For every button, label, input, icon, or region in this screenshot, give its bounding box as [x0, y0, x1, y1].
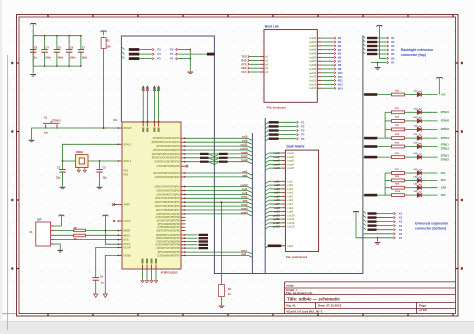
- power VCC: [31, 24, 36, 28]
- power VCC: [437, 78, 443, 82]
- wire: [33, 28, 81, 73]
- pin UVCC arrow: [113, 220, 116, 223]
- svg-text:PE2: PE2: [124, 169, 129, 172]
- svg-text:Sig. #1: Sig. #1: [286, 304, 296, 308]
- comment backlight: [401, 48, 433, 57]
- pin net swcl: [158, 249, 253, 255]
- svg-text:(RXD1/AIN5/INT2)PD2: (RXD1/AIN5/INT2)PD2: [156, 237, 180, 240]
- svg-text:BTN22: BTN22: [441, 157, 450, 161]
- capacitor C2: [56, 161, 66, 181]
- node net-right: [170, 52, 215, 56]
- svg-text:BTN04: BTN04: [441, 136, 450, 140]
- svg-text:ATMEGA32U2: ATMEGA32U2: [161, 270, 179, 274]
- wire buzzer: [221, 201, 223, 283]
- svg-text:(OC0A/PCINT7/ADC)PC7: (OC0A/PCINT7/ADC)PC7: [153, 172, 181, 175]
- svg-text:col1: col1: [274, 179, 280, 183]
- node SCK: [121, 56, 161, 61]
- svg-text:(PCINT8/CLKO/ICP1)PC0: (PCINT8/CLKO/ICP1)PC0: [153, 138, 181, 140]
- pin UVCC: [118, 220, 131, 223]
- connector SV2 Dash Matrix: [285, 145, 318, 260]
- svg-text:(CTS/HWB/AIN7)PD7: (CTS/HWB/AIN7)PD7: [157, 254, 180, 257]
- svg-text:row2: row2: [273, 155, 280, 159]
- pin GND: [142, 259, 144, 281]
- svg-text:(XCK/AIN4/PCINT)PD4: (XCK/AIN4/PCINT)PD4: [156, 216, 181, 219]
- ground: [150, 281, 153, 283]
- node MOSI: [121, 47, 161, 52]
- svg-text:(ADC4/TCK/PCINT)PA4: (ADC4/TCK/PCINT)PA4: [155, 197, 181, 200]
- diode row D1 +5V: [362, 82, 445, 97]
- svg-text:PE6: PE6: [124, 173, 129, 176]
- power VCC arrow: [157, 86, 160, 123]
- pin led07: [309, 59, 341, 63]
- pin unused: [157, 221, 186, 223]
- diode row PA1: [385, 169, 446, 175]
- node label pair: [200, 153, 228, 155]
- svg-text:col7: col7: [274, 202, 280, 206]
- pin net row4: [156, 210, 252, 216]
- svg-text:IC1: IC1: [114, 118, 119, 122]
- svg-text:P3: P3: [170, 48, 174, 52]
- svg-text:col3: col3: [274, 187, 280, 191]
- node bk2: [362, 40, 395, 45]
- svg-text:connector (top): connector (top): [401, 53, 426, 57]
- pin col3: [265, 187, 293, 191]
- ground: [141, 281, 144, 283]
- pin UCAP: [118, 247, 131, 250]
- svg-text:(ADC0/PCINT0/INT)PA0: (ADC0/PCINT0/INT)PA0: [155, 176, 181, 179]
- comment universal: [415, 222, 448, 231]
- pin GND: [146, 259, 148, 281]
- pin led03: [309, 44, 341, 48]
- svg-text:led11: led11: [310, 75, 317, 79]
- svg-text:row5: row5: [273, 166, 280, 170]
- svg-text:swd: swd: [241, 252, 246, 256]
- power VCC: [55, 215, 64, 226]
- svg-text:M13: M13: [338, 83, 343, 86]
- svg-text:of 1/5: of 1/5: [419, 308, 427, 312]
- pin TXD: [242, 55, 270, 58]
- pin net sw2: [155, 173, 253, 179]
- pin net row6: [152, 150, 253, 156]
- wire UGND: [103, 255, 117, 297]
- pin row3: [265, 159, 294, 163]
- pin led04: [309, 48, 341, 52]
- node bk1: [362, 36, 395, 41]
- svg-text:sw2: sw2: [242, 173, 248, 177]
- pin GND: [151, 259, 153, 281]
- svg-text:22p: 22p: [103, 177, 108, 180]
- capacitor C6: [66, 35, 76, 67]
- bus B1: [121, 36, 363, 274]
- node bl4: [265, 133, 305, 137]
- ground: [60, 181, 66, 189]
- pin col5: [265, 194, 293, 198]
- pin led12: [309, 79, 343, 83]
- wire MOSI: [55, 230, 118, 232]
- pin led01: [309, 36, 341, 40]
- power VCC backlight: [377, 26, 395, 61]
- svg-text:RXD: RXD: [241, 60, 246, 63]
- svg-text:(PCINT11/AIN2/TMS)PC3: (PCINT11/AIN2/TMS)PC3: [153, 149, 180, 152]
- svg-text:col11: col11: [273, 217, 280, 221]
- pin net row8: [154, 158, 252, 164]
- wire XTAL1: [88, 160, 118, 162]
- svg-text:UCAP: UCAP: [124, 247, 131, 250]
- pin PE6: [124, 173, 129, 176]
- svg-text:(ADC6/TDO/PCINT)PA6: (ADC6/TDO/PCINT)PA6: [155, 205, 181, 208]
- capacitor C9: [93, 275, 105, 284]
- pin net row1: [155, 195, 253, 201]
- svg-text:col10: col10: [273, 213, 280, 217]
- diode row PA5: [385, 191, 446, 197]
- ground: [375, 237, 381, 244]
- svg-text:col4: col4: [274, 191, 280, 195]
- pin led08: [309, 63, 341, 67]
- svg-text:led01: led01: [309, 36, 316, 40]
- pin net LED: [157, 247, 208, 250]
- svg-text:PA5: PA5: [441, 193, 446, 197]
- svg-text:led06: led06: [309, 55, 316, 59]
- pin led06: [309, 55, 341, 59]
- diode row CAB: [385, 184, 446, 190]
- svg-text:Page: Page: [419, 303, 427, 307]
- pin XTAL1: [118, 160, 132, 163]
- pin col6: [265, 198, 293, 202]
- pin led05: [309, 52, 341, 56]
- wire reset: [32, 127, 118, 129]
- pin col4: [265, 191, 293, 195]
- pin RESET: [118, 127, 133, 130]
- svg-text:GND: GND: [241, 67, 247, 70]
- svg-text:BTN12: BTN12: [441, 147, 450, 151]
- svg-text:VCad 6.5.0 (cad (M,L,N)–1: VCad 6.5.0 (cad (M,L,N)–1: [286, 309, 323, 313]
- svg-text:(ADC2/AIN0/TDO)PA2: (ADC2/AIN0/TDO)PA2: [156, 189, 180, 192]
- svg-text:(RTS/AIN6/INT6)PD6: (RTS/AIN6/INT6)PD6: [158, 223, 181, 226]
- svg-text:(TXD1/INT3/AIN1)PD3: (TXD1/INT3/AIN1)PD3: [156, 165, 180, 168]
- svg-text:1u: 1u: [101, 281, 104, 284]
- svg-text:row8: row8: [241, 158, 248, 162]
- svg-text:col2: col2: [274, 183, 280, 187]
- svg-text:BTN02: BTN02: [441, 119, 450, 123]
- power VCC arrow: [142, 86, 145, 123]
- ground: [145, 281, 148, 283]
- pin col13: [265, 225, 295, 229]
- pin net col12: [155, 183, 253, 189]
- svg-text:(TXD1/INT3/AIN1)PD3: (TXD1/INT3/AIN1)PD3: [156, 240, 180, 243]
- svg-text:CAB: CAB: [441, 186, 447, 190]
- node bk4: [362, 48, 395, 53]
- pin AVCC: [118, 243, 131, 246]
- pin VCC: [241, 71, 269, 74]
- svg-text:M4: M4: [338, 49, 342, 52]
- svg-text:(SS/PCINT0/ADC)PB0: (SS/PCINT0/ADC)PB0: [156, 229, 180, 232]
- svg-text:BTN01: BTN01: [441, 110, 450, 114]
- pin VCC: [142, 122, 144, 132]
- svg-text:M8: M8: [338, 64, 342, 67]
- svg-text:col5: col5: [274, 194, 280, 198]
- node bl1: [265, 121, 305, 125]
- svg-text:(ICP1/INT0/CLK0)PD0: (ICP1/INT0/CLK0)PD0: [156, 214, 180, 216]
- svg-text:col8: col8: [274, 206, 280, 210]
- svg-text:col13: col13: [287, 225, 295, 229]
- svg-text:VCC: VCC: [241, 71, 246, 74]
- node net-right: [170, 57, 191, 61]
- pin net row7: [152, 154, 253, 160]
- resistor R6: [74, 227, 86, 232]
- svg-text:P4: P4: [170, 52, 174, 56]
- svg-text:M3: M3: [338, 45, 342, 48]
- pin DTR: [241, 63, 269, 66]
- svg-text:led02: led02: [309, 40, 316, 44]
- ground: [55, 244, 64, 252]
- svg-text:100n: 100n: [58, 56, 64, 59]
- connector X1 ISP: [30, 217, 55, 246]
- wire: [103, 50, 105, 130]
- svg-text:led05: led05: [309, 52, 316, 56]
- svg-text:(OC1B/PCINT12/ADC)PC4: (OC1B/PCINT12/ADC)PC4: [152, 153, 181, 156]
- diode row PA2: [385, 176, 446, 182]
- node bk5: [362, 52, 395, 57]
- pin col10: [265, 213, 295, 217]
- svg-text:(RTS/AIN6/INT6)PD6: (RTS/AIN6/INT6)PD6: [158, 251, 181, 254]
- svg-text:UVCC: UVCC: [124, 220, 131, 223]
- pin led09: [309, 67, 341, 71]
- pin row5: [265, 166, 294, 170]
- node bl5: [265, 138, 305, 142]
- svg-text:(OC2B/INT1/AIN0)PD1: (OC2B/INT1/AIN0)PD1: [156, 234, 181, 237]
- svg-text:(PCINT10/ADC10)PC2: (PCINT10/ADC10)PC2: [156, 145, 180, 148]
- svg-text:(CTS/HWB/AIN7)PD7: (CTS/HWB/AIN7)PD7: [157, 226, 180, 229]
- svg-text:SCK: SCK: [124, 239, 129, 242]
- svg-text:P4: P4: [158, 52, 162, 56]
- pin nc: [156, 165, 188, 168]
- svg-text:led08: led08: [309, 63, 316, 67]
- pin PAD: [158, 122, 160, 132]
- svg-text:(XCK/AIN4/PCINT)PD4: (XCK/AIN4/PCINT)PD4: [156, 244, 181, 247]
- pin col12: [265, 221, 295, 225]
- pin unused: [156, 216, 186, 219]
- svg-text:1u: 1u: [34, 56, 37, 59]
- resistor R5: [74, 234, 86, 241]
- crystal Q1 16MHz: [63, 151, 89, 168]
- pin net col5: [153, 135, 253, 141]
- svg-text:Universal expansion: Universal expansion: [415, 222, 448, 226]
- power VCC arrow: [146, 86, 149, 123]
- pin led11: [310, 75, 344, 79]
- svg-text:Dash Matrix: Dash Matrix: [287, 145, 305, 149]
- svg-text:10k: 10k: [107, 46, 112, 49]
- pin led02: [309, 40, 341, 44]
- wire UCAP: [96, 248, 118, 276]
- ground crystal case: [77, 168, 86, 173]
- wire SCK: [55, 239, 118, 241]
- ground backlight: [371, 61, 395, 69]
- svg-text:BTN21: BTN21: [441, 153, 450, 157]
- node ue4: [363, 223, 403, 228]
- pin col1: [265, 179, 293, 183]
- svg-text:P5: P5: [170, 57, 174, 61]
- wire MISO: [55, 234, 118, 236]
- svg-text:M2: M2: [338, 41, 342, 44]
- pin net LED: [156, 240, 208, 243]
- connector SV1 Boot Lab: [264, 24, 317, 109]
- pin unused: [157, 226, 185, 229]
- svg-text:DTSM-3: DTSM-3: [52, 120, 61, 122]
- svg-text:M9: M9: [338, 68, 342, 71]
- svg-text:XTAL1: XTAL1: [124, 160, 132, 163]
- svg-text:Boot Lab: Boot Lab: [265, 24, 279, 28]
- node ue6: [363, 233, 403, 236]
- svg-text:(ADC5/TMS/PCINT)PA5: (ADC5/TMS/PCINT)PA5: [155, 201, 181, 204]
- wire + ground: [188, 50, 194, 74]
- node MISO: [121, 52, 161, 57]
- svg-text:cled: cled: [287, 244, 293, 248]
- svg-text:TXD: TXD: [242, 56, 247, 59]
- svg-text:rohar: rohar: [286, 283, 295, 287]
- pin GND: [155, 259, 157, 281]
- svg-text:M7: M7: [338, 60, 342, 63]
- pin MISO: [118, 234, 130, 237]
- svg-text:row1: row1: [273, 151, 280, 155]
- svg-text:(PCINT14/ADC/INT)PC6: (PCINT14/ADC/INT)PC6: [154, 161, 180, 164]
- svg-text:Title: udb4c — schematic: Title: udb4c — schematic: [287, 296, 340, 301]
- ground: [29, 128, 35, 142]
- svg-text:100n: 100n: [82, 56, 88, 59]
- node label pair: [200, 157, 228, 159]
- svg-text:led14: led14: [309, 86, 316, 90]
- svg-text:100n: 100n: [70, 56, 76, 59]
- pin col8: [265, 206, 293, 210]
- svg-text:col13: col13: [273, 225, 280, 229]
- diode group B: [362, 173, 385, 196]
- svg-text:PA2: PA2: [441, 178, 446, 182]
- svg-text:BTN11: BTN11: [441, 143, 450, 147]
- capacitor C7: [78, 35, 88, 67]
- wire XTAL2: [62, 144, 118, 162]
- pin col9: [265, 210, 293, 214]
- diode row BTN04: [385, 133, 449, 140]
- svg-text:(ADC7/TDI/PCINT)PA7: (ADC7/TDI/PCINT)PA7: [156, 209, 181, 212]
- pin net col2: [156, 191, 252, 197]
- svg-text:MISO: MISO: [124, 234, 130, 237]
- ground: [154, 281, 157, 283]
- pin XTAL2: [118, 143, 132, 146]
- svg-text:connector (bottom): connector (bottom): [415, 227, 446, 231]
- svg-text:led07: led07: [309, 59, 316, 63]
- ground: [30, 75, 36, 77]
- power AVCC: [103, 215, 118, 244]
- svg-text:M12: M12: [338, 80, 343, 83]
- pin led10: [309, 71, 343, 75]
- op IC1 microcontroller ATMEGA32: [114, 118, 182, 274]
- svg-text:File: keyboard.sch: File: keyboard.sch: [286, 291, 313, 295]
- diode row BTN02: [385, 117, 449, 123]
- bus B3: [264, 118, 266, 274]
- pin net row3: [156, 206, 253, 212]
- power VCC: [353, 212, 402, 240]
- pin net spk: [155, 199, 253, 205]
- svg-text:(PCINT13/OC4B/ADC)PC5: (PCINT13/OC4B/ADC)PC5: [152, 157, 181, 160]
- svg-text:row3: row3: [273, 159, 280, 163]
- ground: [94, 283, 98, 298]
- svg-text:M10: M10: [338, 72, 343, 75]
- pin SCK: [118, 239, 129, 242]
- ground: [219, 298, 225, 308]
- node ue3: [363, 219, 403, 224]
- svg-text:row4: row4: [273, 162, 280, 166]
- pin row4: [265, 162, 294, 166]
- pin UVCC: [146, 122, 148, 132]
- svg-text:M6: M6: [338, 56, 342, 59]
- svg-text:led09: led09: [309, 67, 316, 71]
- svg-text:M5: M5: [338, 53, 342, 56]
- pin net col6: [152, 139, 253, 145]
- pin net col13: [153, 146, 252, 152]
- ground: [97, 181, 103, 189]
- diode row BTN21: [362, 153, 449, 161]
- pin net col11: [156, 143, 252, 149]
- diode group A: [362, 112, 385, 139]
- svg-text:M11: M11: [338, 76, 343, 79]
- pin row1: [265, 151, 294, 155]
- svg-text:led03: led03: [309, 44, 316, 48]
- node bl2: [265, 125, 305, 129]
- title block: [284, 282, 455, 314]
- svg-text:ISP: ISP: [37, 217, 42, 221]
- svg-text:XTAL2: XTAL2: [124, 143, 132, 146]
- bus tap hooks: [209, 154, 219, 165]
- resistor R1: [101, 37, 111, 50]
- svg-text:File: bootboard: File: bootboard: [267, 105, 286, 109]
- svg-text:(OC0B/T1/PCINT)PD5: (OC0B/T1/PCINT)PD5: [157, 221, 181, 223]
- svg-text:MOSI: MOSI: [124, 230, 131, 233]
- pin led14: [309, 86, 343, 90]
- svg-text:(ADC1/PCINT1/TDI)PA1: (ADC1/PCINT1/TDI)PA1: [155, 186, 181, 189]
- svg-text:row4: row4: [241, 210, 248, 214]
- diode row BTN11: [362, 142, 449, 150]
- svg-text:(PCINT9/OC1A/OC4A)PC1: (PCINT9/OC1A/OC4A)PC1: [152, 141, 181, 144]
- pin net LED: [156, 244, 208, 247]
- svg-text:Date: 27.10.2013: Date: 27.10.2013: [318, 304, 342, 308]
- svg-text:RESET: RESET: [124, 127, 133, 130]
- pin led13: [309, 82, 343, 86]
- pin AVCC: [153, 122, 155, 132]
- node bl3: [265, 129, 305, 133]
- svg-text:AREF: AREF: [124, 204, 131, 207]
- pin unused: [158, 223, 186, 226]
- svg-text:row5: row5: [287, 166, 294, 170]
- svg-text:(OC0B/T1/PCINT)PD5: (OC0B/T1/PCINT)PD5: [157, 248, 181, 250]
- node ue1: [363, 211, 403, 216]
- svg-text:col6: col6: [274, 198, 280, 202]
- pin AREF nc: [112, 203, 130, 206]
- pin MOSI: [118, 230, 131, 233]
- switch S1: [43, 117, 61, 135]
- svg-text:M1: M1: [338, 37, 342, 40]
- capacitor C5: [54, 35, 64, 67]
- node net-right: [170, 48, 191, 52]
- node label pair: [200, 161, 228, 163]
- capacitor C4: [41, 35, 51, 67]
- svg-text:led12: led12: [309, 79, 316, 83]
- svg-text:R110: R110: [395, 191, 401, 193]
- svg-text:led10: led10: [309, 71, 316, 75]
- pin UGND: [118, 254, 132, 257]
- svg-text:col9: col9: [274, 210, 280, 214]
- svg-text:22p: 22p: [56, 177, 61, 180]
- pin net col1: [156, 187, 252, 193]
- power VCC arrow: [153, 86, 156, 123]
